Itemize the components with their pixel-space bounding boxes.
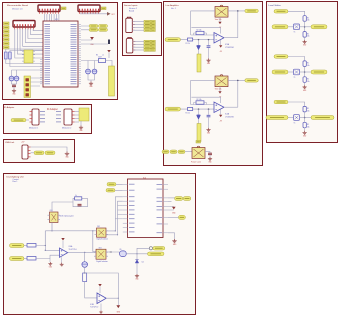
svg-text:Digital Isolation: Digital Isolation xyxy=(96,260,108,263)
svg-text:Sensor Inputs: Sensor Inputs xyxy=(124,4,138,7)
svg-text:R1: R1 xyxy=(307,108,309,110)
svg-text:R2 10k: R2 10k xyxy=(197,99,202,101)
svg-text:GND: GND xyxy=(49,266,52,268)
svg-text:5v1: 5v1 xyxy=(142,262,145,264)
svg-text:GND: GND xyxy=(303,45,306,47)
svg-text:USB-Link: USB-Link xyxy=(5,142,15,144)
svg-text:R5: R5 xyxy=(96,54,98,56)
svg-text:Board: Board xyxy=(129,9,134,12)
svg-text:GND: GND xyxy=(208,162,211,164)
svg-text:10uH: 10uH xyxy=(98,57,102,59)
svg-text:R2: R2 xyxy=(307,124,309,126)
svg-text:T1: T1 xyxy=(294,122,296,124)
svg-text:GND: GND xyxy=(207,133,210,135)
svg-text:Line Amplifier: Line Amplifier xyxy=(166,4,179,7)
svg-text:Microcontroller Board: Microcontroller Board xyxy=(7,4,29,7)
svg-text:Power Conn: Power Conn xyxy=(191,162,201,164)
svg-text:Ver. 1: Ver. 1 xyxy=(171,7,176,10)
svg-text:Digital Isolation: Digital Isolation xyxy=(97,238,109,241)
svg-text:T1: T1 xyxy=(294,32,296,34)
svg-text:R1: R1 xyxy=(307,17,309,19)
svg-text:GND: GND xyxy=(303,135,306,137)
svg-text:Trim 10k: Trim 10k xyxy=(215,89,222,91)
svg-text:10k: 10k xyxy=(307,126,310,128)
svg-text:Level Shifter: Level Shifter xyxy=(269,4,281,7)
svg-text:10k: 10k xyxy=(307,36,310,38)
svg-text:R1 1k: R1 1k xyxy=(186,112,190,114)
svg-text:GND: GND xyxy=(12,93,15,95)
svg-text:R1 1k: R1 1k xyxy=(186,43,190,45)
svg-text:LT1632/SO: LT1632/SO xyxy=(225,47,235,49)
svg-text:GND: GND xyxy=(79,130,82,132)
svg-text:OK3: OK3 xyxy=(99,248,102,250)
svg-text:R1: R1 xyxy=(307,63,309,65)
svg-text:T1: T1 xyxy=(294,77,296,79)
svg-text:L1: L1 xyxy=(102,54,104,56)
svg-text:LT1632/SO: LT1632/SO xyxy=(225,117,235,119)
svg-text:Minitaster 2: Minitaster 2 xyxy=(62,127,71,130)
svg-text:GND: GND xyxy=(207,63,210,65)
svg-text:10k: 10k xyxy=(307,20,310,22)
svg-text:GND: GND xyxy=(89,86,92,88)
svg-text:-9V: -9V xyxy=(220,51,222,53)
svg-text:GND: GND xyxy=(135,279,138,281)
svg-text:OUT: OUT xyxy=(111,14,114,16)
svg-text:4n35 Optocoupler: 4n35 Optocoupler xyxy=(60,215,75,218)
svg-text:R2: R2 xyxy=(307,33,309,35)
svg-text:-9V: -9V xyxy=(220,120,222,122)
svg-text:1k: 1k xyxy=(75,195,77,197)
svg-text:OK1: OK1 xyxy=(50,210,53,212)
svg-text:OK2: OK2 xyxy=(97,226,100,228)
svg-text:R5: R5 xyxy=(120,249,122,251)
svg-text:Minitaster 1: Minitaster 1 xyxy=(29,127,38,130)
svg-text:10k: 10k xyxy=(307,81,310,83)
svg-text:Trim 10k: Trim 10k xyxy=(215,19,222,21)
svg-text:TL072/TL0: TL072/TL0 xyxy=(69,249,77,251)
svg-text:GND: GND xyxy=(303,90,306,92)
svg-text:Rev 1: Rev 1 xyxy=(13,181,18,183)
svg-text:R2 10k: R2 10k xyxy=(197,30,202,32)
svg-text:TL072/TL0: TL072/TL0 xyxy=(90,307,98,309)
svg-text:10k: 10k xyxy=(307,110,310,112)
svg-text:R2: R2 xyxy=(307,79,309,81)
svg-text:ID Adapter: ID Adapter xyxy=(4,106,15,109)
svg-text:10k: 10k xyxy=(307,65,310,67)
svg-text:Version 1.0: Version 1.0 xyxy=(12,8,23,11)
svg-text:ID Adapter: ID Adapter xyxy=(47,108,58,111)
